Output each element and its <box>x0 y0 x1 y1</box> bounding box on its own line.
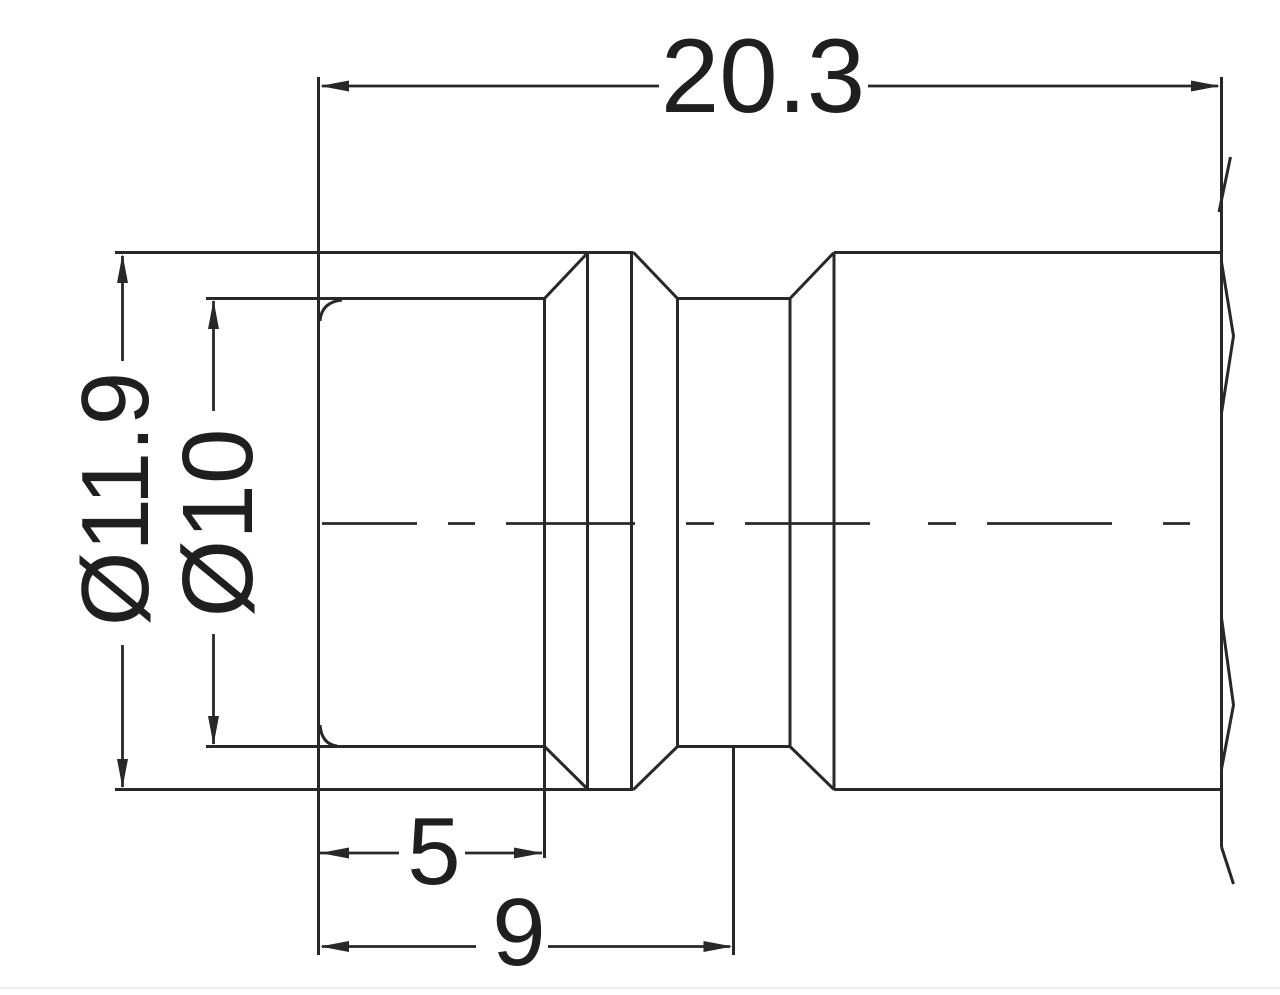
svg-text:Ø11.9: Ø11.9 <box>62 372 169 626</box>
dimension 9 label <box>492 879 545 986</box>
socket bottom edge (Ø10 section) with extension line to Ø10 dimension <box>206 745 545 748</box>
socket rear edge vertical (also extension line for dimension 5) <box>543 299 546 859</box>
dimension Ø11.9 line lower segment <box>121 645 124 787</box>
dimension 5 line right segment <box>465 852 542 855</box>
rear body front edge vertical <box>833 253 836 790</box>
flange front edge vertical <box>586 253 589 790</box>
dimension Ø10 lower arrowhead <box>208 716 219 745</box>
dimension 5 label <box>407 798 460 905</box>
dimension 9 line left segment <box>322 945 476 948</box>
svg-text:5: 5 <box>407 798 460 905</box>
flange top edge (Ø11.9) with extension line to Ø11.9 dimension <box>115 251 634 254</box>
dimension 9 right arrowhead <box>704 941 733 952</box>
faint page edge line at bottom <box>0 987 1280 989</box>
dimension 20.3 left arrowhead <box>320 81 349 92</box>
dimension Ø11.9 upper arrowhead <box>117 254 128 283</box>
rear body bottom edge <box>834 788 1222 791</box>
groove rear edge vertical <box>789 299 792 747</box>
groove front edge vertical <box>676 299 679 747</box>
dimension 20.3 line left segment <box>322 85 659 88</box>
break line lower zigzag <box>1222 618 1234 769</box>
dimension Ø11.9 lower arrowhead <box>117 759 128 788</box>
break line lower tail <box>1222 847 1234 884</box>
dimension Ø10 line upper segment <box>212 301 215 411</box>
chamfer flange to groove, bottom <box>634 747 678 790</box>
dimension 5 line left segment <box>320 852 399 855</box>
socket top edge (Ø10 section) with extension line to Ø10 dimension <box>206 297 545 300</box>
centerline (dashed axis) <box>322 522 1190 525</box>
dimension Ø11.9 label <box>62 372 169 626</box>
break line vertical (right end, also extension line for 20.3) <box>1220 77 1223 847</box>
chamfer flange to groove, top <box>634 253 678 299</box>
break line upper zigzag <box>1222 262 1234 413</box>
dimension Ø10 label <box>162 428 274 617</box>
groove top edge <box>678 297 791 300</box>
dimension Ø10 upper arrowhead <box>208 300 219 329</box>
chamfer groove to rear body, top <box>790 253 834 299</box>
dimension 9 extension line <box>732 747 735 956</box>
svg-text:9: 9 <box>492 879 545 986</box>
chamfer groove to rear body, bottom <box>790 747 834 790</box>
left face of connector body (vertical line, also extension line for 20.3 / 5 / 9) <box>317 77 320 955</box>
svg-text:Ø10: Ø10 <box>162 428 274 617</box>
chamfer socket to flange, bottom <box>545 747 589 790</box>
dimension 9 left arrowhead <box>320 941 349 952</box>
svg-text:20.3: 20.3 <box>661 18 865 135</box>
dimension Ø10 line lower segment <box>212 634 215 744</box>
groove bottom edge <box>678 745 791 748</box>
bore corner fillet bottom-left <box>320 725 337 746</box>
dimension 20.3 right arrowhead <box>1191 81 1220 92</box>
flange bottom edge (Ø11.9) with extension line to Ø11.9 dimension <box>115 788 634 791</box>
dimension 5 right arrowhead <box>514 848 543 859</box>
dimension 20.3 line right segment <box>868 85 1218 88</box>
dimension 9 line right segment <box>548 945 730 948</box>
bore corner fillet top-left <box>320 300 342 321</box>
flange rear edge vertical <box>630 253 633 790</box>
chamfer socket to flange, top <box>545 253 589 299</box>
rear body top edge <box>834 251 1222 254</box>
dimension Ø11.9 line upper segment <box>121 256 124 361</box>
dimension 20.3 label <box>661 18 865 135</box>
break line upper tick <box>1219 157 1231 212</box>
dimension 5 left arrowhead <box>320 848 349 859</box>
